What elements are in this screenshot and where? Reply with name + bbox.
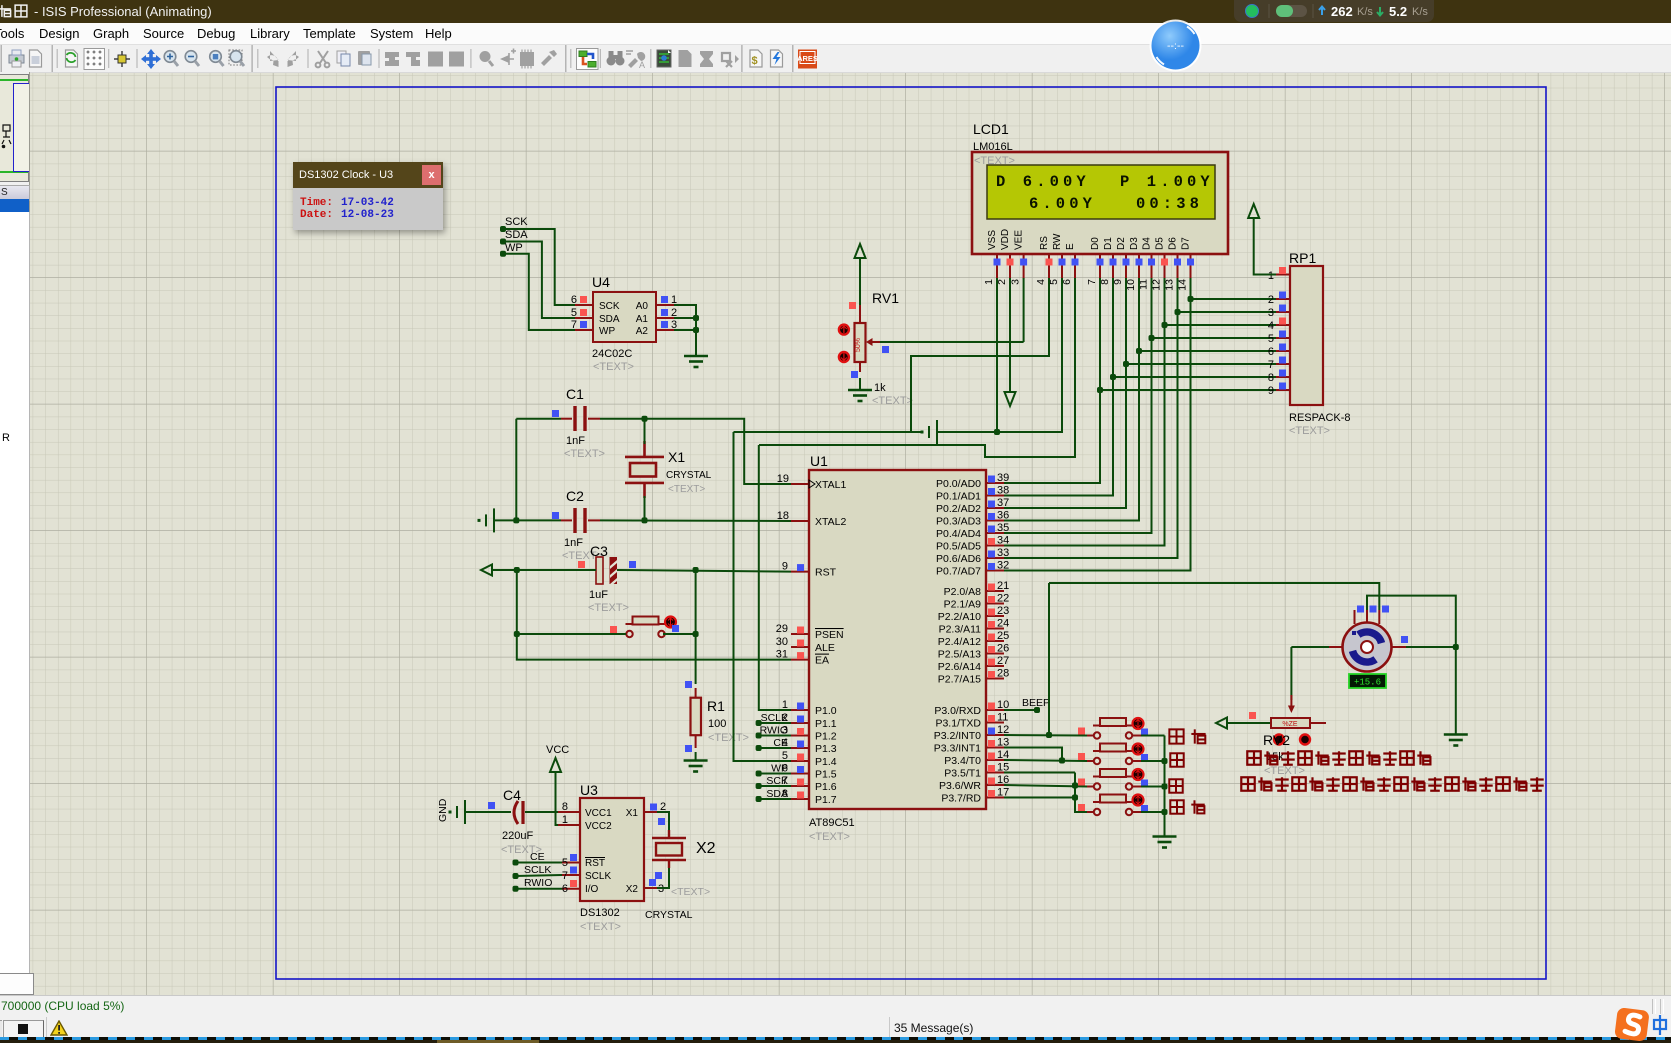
svg-text:<TEXT>: <TEXT> [671,886,710,898]
power terminal VCC at U3 [550,758,561,772]
U1 pin 1 P1.0 [791,709,809,711]
wire R1 to ground [695,752,697,760]
svg-text:C2: C2 [566,488,584,504]
U1 pin 24 P2.3/A11 [986,628,1004,630]
svg-text:RP1: RP1 [1289,250,1316,266]
node motor right junction [1453,644,1459,650]
U3 pin X2 (3) [644,887,657,889]
svg-text:4: 4 [1035,279,1047,285]
node SCK wire end [500,226,506,232]
svg-text:P0.2/AD2: P0.2/AD2 [936,503,981,515]
power terminal VDD power down [1005,392,1016,406]
crystal X1 [625,441,664,498]
U3 pin VCC2 (1) [558,824,580,826]
svg-text:262: 262 [1331,4,1353,19]
U1 pin 35 P0.4/AD4 [986,532,1004,534]
svg-text:U3: U3 [580,782,598,798]
U1 pin 31 EA [791,659,809,661]
U1 pin 36 P0.3/AD3 [986,520,1004,522]
node C3 row junction a [514,567,520,573]
svg-text:CE: CE [530,851,545,863]
U3 pin SCLK (7) [562,874,580,876]
RP1 pin 1 [1276,274,1290,276]
node SW3 junction [1072,783,1078,789]
svg-text:P2.2/A10: P2.2/A10 [938,611,981,623]
svg-text:39: 39 [997,472,1009,484]
wire motor right wire [1406,646,1456,648]
svg-text:XTAL1: XTAL1 [815,479,846,491]
RP1 pin 5 [1276,337,1290,339]
U1 pin 2 P1.1 [791,722,809,724]
wire P3.3/P3.4 to SW2 [1004,760,1087,761]
svg-text:X2: X2 [626,884,639,895]
wire C1 left [516,418,561,420]
svg-text:<TEXT>: <TEXT> [708,732,749,744]
node D7/RP1 junction [1188,296,1194,302]
LCD LCD1 body [972,152,1228,254]
wire U1 SCLK stub [759,722,791,724]
svg-text:P3.0/RXD: P3.0/RXD [934,705,981,717]
node SW2 common [1162,758,1168,764]
svg-text:XTAL2: XTAL2 [815,516,846,528]
wire motor to RV2 [1290,647,1292,700]
wire U4 A2 to common [674,329,696,331]
potentiometer RV1 [849,302,856,309]
svg-text:ARES: ARES [797,54,818,63]
wire C3 to RST [617,570,791,572]
U1 pin 37 P0.2/AD2 [986,507,1004,509]
svg-text:D1: D1 [1103,237,1114,250]
svg-text:P0.3/AD3: P0.3/AD3 [936,516,981,528]
U4 pin WP (7) [575,329,593,331]
svg-text:X1: X1 [626,808,639,819]
U1 pin 16 P3.6/WR [986,784,1004,786]
RP1 pin 6 [1276,350,1290,352]
wire SW1 left stub [1087,735,1094,737]
wire reset btn left / EA [517,570,791,660]
node VSS-gnd junction [994,429,1000,435]
svg-text:P2.7/A15: P2.7/A15 [938,674,981,686]
ground U4 address pins [684,356,708,367]
svg-text:37: 37 [997,497,1009,509]
svg-text:P1.2: P1.2 [815,731,837,743]
svg-text:RW: RW [1052,233,1063,250]
node C2 junction [513,517,519,523]
wire U1 WP stub [759,773,791,775]
LCD screen [987,165,1215,219]
svg-text:E: E [1065,243,1076,250]
svg-text:P3.6/WR: P3.6/WR [939,780,981,792]
svg-text:<TEXT>: <TEXT> [564,448,605,460]
node X1 bottom junction [642,517,648,523]
svg-text:1nF: 1nF [566,435,585,447]
node SW3 common [1162,784,1168,790]
wire LCD RS to ground rail [911,278,1049,432]
wire LCD VDD down [1009,278,1011,392]
wire D2 to RP1 pin 7 [1126,363,1276,365]
svg-text:D0: D0 [1090,237,1101,250]
node SDA wire end [500,239,506,245]
svg-text:P3.3/INT1: P3.3/INT1 [934,743,981,755]
svg-text:$: $ [752,55,758,67]
svg-text:X1: X1 [668,449,685,465]
node CE end [513,860,519,866]
wire VCC to U3 VCC1 [556,811,581,813]
svg-text:RST: RST [815,567,837,579]
svg-text:33: 33 [997,547,1009,559]
svg-text:P3.2/INT0: P3.2/INT0 [934,730,981,742]
U4 pin A2 (3) [656,329,674,331]
svg-text:38: 38 [997,485,1009,497]
svg-text:RS: RS [1039,236,1050,250]
svg-text:7: 7 [1086,279,1098,285]
wire btn right wire [663,633,696,635]
wire LCD D5 to U1 P0.5 [1004,278,1165,546]
svg-text:1: 1 [983,279,995,285]
annotation line 2 调到靠右的位置，速度慢，就是低速模式 [1241,777,1254,790]
terminal reset net arrow [481,565,492,576]
svg-text:D 6.00Y: D 6.00Y [996,173,1090,191]
svg-text:5: 5 [562,857,568,869]
svg-text:27: 27 [997,655,1009,667]
node RWIO end [756,733,762,739]
wire VSS RW tie [997,431,1062,433]
svg-text:<TEXT>: <TEXT> [668,484,705,495]
svg-text:<TEXT>: <TEXT> [872,395,913,407]
svg-text:RST: RST [585,858,605,869]
wire LCD D7 to U1 P0.7 [1004,278,1191,571]
power terminal VCC at RP1 [1248,204,1259,218]
wire SW4 left stub [1087,811,1094,813]
wire to motor ground [1455,647,1457,734]
RP1 pin 2 [1276,298,1290,300]
node SW2 junction [1059,758,1065,764]
wire P3.2 to SW1 [1004,734,1087,737]
wire LCD VEE down [1023,278,1025,342]
wire U4 A0/A1/A2 common [674,305,696,355]
svg-text:24C02C: 24C02C [592,348,632,360]
svg-text:U1: U1 [810,453,828,469]
svg-text:7: 7 [1268,359,1274,371]
node SCK end [756,783,762,789]
svg-text:P2.1/A9: P2.1/A9 [944,599,982,611]
wire U1 RWIO stub [759,735,791,737]
U1 pin 12 P3.2/INT0 [986,734,1004,736]
wire LCD RW to ground rail [937,278,1062,432]
power terminal VCC above RV1 [855,244,866,258]
U1 pin 25 P2.4/A12 [986,640,1004,642]
wire P3.3 jog [1004,748,1062,762]
svg-text:DS1302: DS1302 [580,907,620,919]
wire D5 to RP1 pin 4 [1165,324,1277,326]
svg-text:100: 100 [708,718,726,730]
U1 pin 19 XTAL1 [791,483,809,485]
svg-text:U4: U4 [592,274,610,290]
svg-text:6.00Y: 6.00Y [1029,195,1096,213]
svg-text:D3: D3 [1129,237,1140,250]
svg-text:29: 29 [776,623,788,635]
svg-text:21: 21 [997,580,1009,592]
svg-text:WP: WP [505,242,523,254]
U1 pin 22 P2.1/A9 [986,603,1004,605]
wire P3.2 up [1048,583,1050,735]
svg-text:RWIO: RWIO [524,877,552,889]
wire VCC to RP1 pin1 [1254,218,1276,275]
wire SW2 right [1132,760,1141,762]
pushbutton SW4 [1093,795,1133,816]
svg-text:P 1.00Y: P 1.00Y [1120,173,1214,191]
U1 pin 30 ALE [791,646,809,648]
svg-text:11: 11 [997,712,1008,724]
svg-text:35: 35 [997,522,1009,534]
wire D7 to RP1 pin 2 [1191,298,1277,300]
svg-text:A1: A1 [636,314,649,325]
svg-text:VCC: VCC [546,744,569,756]
node SCLK end [756,720,762,726]
U1 pin 10 P3.0/RXD [986,709,1004,711]
wire U1 SCK stub [759,785,791,787]
wire X1 bottom link [644,496,646,520]
annotation 减 [1169,779,1182,792]
node D2/RP1 junction [1123,361,1129,367]
svg-text:P3.4/T0: P3.4/T0 [944,755,981,767]
RV2 buttons [1274,735,1284,745]
U4 pin SCK (6) [575,304,593,306]
wire CE to U3.5 [516,862,563,864]
svg-text:5: 5 [1268,333,1274,345]
wire SCLK to U3.7 [516,875,563,876]
svg-text:P3.7/RD: P3.7/RD [941,793,981,805]
svg-text:P1.1: P1.1 [815,718,837,730]
U4 pin A1 (2) [656,317,674,319]
svg-text:1nF: 1nF [564,537,583,549]
svg-text:VSS: VSS [987,230,998,250]
svg-text:A2: A2 [636,326,649,337]
U3 pin RST (5) [562,862,580,864]
svg-text:2: 2 [1268,294,1274,306]
U1 pin 27 P2.6/A14 [986,665,1004,667]
node WP wire end [500,251,506,257]
svg-text:<TEXT>: <TEXT> [809,831,850,843]
wire U1 CE stub [759,747,791,749]
svg-text:<TEXT>: <TEXT> [593,361,634,373]
svg-text:VCC2: VCC2 [585,821,612,832]
wire rail to C2 [494,519,561,521]
wire U4 A1 to common [674,317,696,319]
wire LCD D1 to U1 P0.1 [1004,278,1113,496]
svg-text:P1.0: P1.0 [815,705,837,717]
U1 pin 23 P2.2/A10 [986,615,1004,617]
svg-text:23: 23 [997,605,1009,617]
wire D4 to RP1 pin 5 [1152,337,1277,339]
wire U1 SDA stub [759,798,791,800]
resistor pack RP1 body [1290,266,1323,405]
svg-text:P0.1/AD1: P0.1/AD1 [936,491,981,503]
wire P3.5 wire [1004,772,1075,774]
svg-text:1: 1 [562,814,568,826]
svg-text:28: 28 [997,668,1009,680]
svg-text:8: 8 [562,801,568,813]
pushbutton SW2 [1093,744,1133,765]
wire P3.0 BEEP [1004,709,1037,711]
U1 pin 6 P1.5 [791,773,809,775]
svg-text:LCD1: LCD1 [973,121,1009,137]
svg-text:SCK: SCK [505,216,528,228]
wire D0 to RP1 pin 9 [1100,389,1276,391]
svg-text:+15.6: +15.6 [1354,678,1381,688]
svg-text:7: 7 [562,870,568,882]
svg-text:1uF: 1uF [589,589,608,601]
svg-text:C4: C4 [503,787,521,803]
wire VCC to RV1 top [859,258,861,305]
svg-text:P0.7/AD7: P0.7/AD7 [936,566,981,578]
svg-text:D6: D6 [1168,237,1179,250]
wire C1-C2 tie [515,419,517,521]
svg-text:D4: D4 [1142,237,1153,250]
U1 pin 11 P3.1/TXD [986,722,1004,724]
svg-text:34: 34 [997,535,1009,547]
motor M1 [1343,623,1392,672]
RV1 wiper arrow [866,338,873,346]
U1 pin 33 P0.6/AD6 [986,557,1004,559]
node C3 row junction b [693,567,699,573]
pushbutton SW3 [1093,769,1133,790]
svg-text:3: 3 [1010,279,1022,285]
svg-text:P2.0/A8: P2.0/A8 [944,586,982,598]
svg-text:SDA: SDA [505,229,528,241]
terminal RV2 input arrow [1216,718,1227,729]
node btn left junction [514,631,520,637]
svg-text:D5: D5 [1155,237,1166,250]
wire E net to P1.0 [759,445,791,710]
U1 pin 7 P1.6 [791,785,809,787]
ground rail C4 gnd rail [450,800,465,824]
wire VCC to U3 VCC2 [556,772,581,825]
annotation 加 [1170,753,1183,766]
wire C2/X1 to XTAL2 [600,519,791,522]
U1 pin 3 P1.2 [791,735,809,737]
U1 pin 4 P1.3 [791,747,809,749]
wire RV1 wiper to VEE [880,341,1024,343]
svg-text:P2.3/A11: P2.3/A11 [939,624,982,636]
resistor R1 [685,681,692,688]
wire LCD D2 to U1 P0.2 [1004,278,1126,508]
wire SW3 left stub [1087,786,1094,788]
ground rail C2 rail [479,508,494,532]
svg-text:1: 1 [1268,270,1274,282]
node BEEP end [1034,707,1040,713]
svg-text:P1.4: P1.4 [815,756,837,768]
ground RV1 [848,390,872,401]
svg-text:8: 8 [1268,372,1274,384]
wire LCD E to P1.0 [759,278,1075,457]
wire crystal to X2 pin [657,868,669,888]
pushbutton reset [626,617,666,638]
svg-text:36: 36 [997,510,1009,522]
svg-text:<TEXT>: <TEXT> [1289,425,1330,437]
wire LCD D0 to U1 P0.0 [1004,278,1100,483]
potentiometer RV2 body [1271,718,1310,728]
U4 pin SDA (5) [575,317,593,319]
IC U3 DS1302 body [580,798,644,901]
U1 pin 18 XTAL2 [791,520,809,522]
node D5/RP1 junction [1162,322,1168,328]
svg-text:A: A [639,60,645,70]
svg-text:D7: D7 [1181,237,1192,250]
U1 pin 9 RST [791,571,809,573]
RP1 pin 7 [1276,363,1290,365]
svg-text:K/s: K/s [1357,6,1373,18]
svg-text:00:38: 00:38 [1136,195,1203,213]
svg-text:32: 32 [997,560,1009,572]
wire LCD D3 to U1 P0.3 [1004,278,1139,521]
node X1 top junction [642,416,648,422]
U1 pin 39 P0.0/AD0 [986,482,1004,484]
svg-text:P1.7: P1.7 [815,794,837,806]
wire LCD D4 to U1 P0.4 [1004,278,1152,533]
U1 pin 32 P0.7/AD7 [986,570,1004,572]
ground rail RS/RW rail [922,420,937,444]
wire C4 to VCC1 [525,811,556,813]
wire X1 pin to crystal [657,812,669,830]
svg-text:9: 9 [1268,385,1274,397]
svg-text:24: 24 [997,618,1009,630]
svg-text:P1.6: P1.6 [815,781,837,793]
wire SW3 right [1132,786,1141,788]
svg-text:I/O: I/O [585,884,599,895]
RV1 decrement button [839,352,849,362]
ground motor [1444,735,1468,746]
svg-text:6: 6 [562,883,568,895]
wire D3 to RP1 pin 6 [1139,350,1276,352]
svg-text:P3.1/TXD: P3.1/TXD [935,718,981,730]
wire arrow to C3 [492,569,596,571]
wire btn left wire [517,633,626,635]
node A2 junction [693,327,699,333]
U1 pin 26 P2.5/A13 [986,653,1004,655]
svg-text:VDD: VDD [1000,229,1011,250]
RP1 pin 9 [1276,389,1290,391]
svg-text:P0.5/AD5: P0.5/AD5 [936,541,981,553]
ground buttons [1153,837,1177,848]
svg-text:<TEXT>: <TEXT> [1264,765,1305,777]
RP1 pin 8 [1276,376,1290,378]
U1 pin 8 P1.7 [791,798,809,800]
node D1/RP1 junction [1110,374,1116,380]
U3 pin X1 (2) [644,811,657,813]
wire P3.6 to SW3 [1004,785,1087,787]
wire SDA to U4.5 [503,242,575,319]
svg-text:1k: 1k [874,382,886,394]
wire X1 top link [644,419,646,444]
wire gnd to C4 [465,811,511,813]
wire C1/X1 to XTAL1 [600,419,791,484]
svg-text:SCLK: SCLK [524,864,551,876]
U1 pin 13 P3.3/INT1 [986,747,1004,749]
RP1 pin 3 [1276,311,1290,313]
svg-text:VCC1: VCC1 [585,808,612,819]
wire RV1 bottom to ground [859,378,861,390]
svg-text:WP: WP [599,326,615,337]
svg-text:P2.4/A12: P2.4/A12 [938,636,981,648]
svg-text:<TEXT>: <TEXT> [588,602,629,614]
node btn right junction [693,631,699,637]
svg-text:3: 3 [1268,307,1274,319]
U1 pin 21 P2.0/A8 [986,590,1004,592]
svg-text:P2.6/A14: P2.6/A14 [938,661,981,673]
svg-text:22: 22 [997,593,1009,605]
wire motor mid pin loop [1367,596,1456,647]
